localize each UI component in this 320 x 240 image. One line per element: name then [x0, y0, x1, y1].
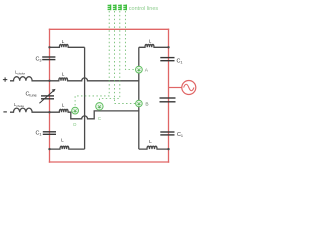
svg-text:Lchoke: Lchoke — [14, 102, 24, 108]
switch D — [72, 107, 79, 114]
svg-text:L: L — [61, 138, 64, 144]
wire top-right black row — [139, 44, 169, 47]
wire red tank loop rectangle — [49, 29, 169, 163]
control line to D — [75, 11, 109, 107]
junction dots on red bus — [48, 46, 169, 150]
svg-text:Lchoke: Lchoke — [15, 70, 25, 76]
svg-text:L: L — [149, 39, 152, 45]
capacitor C1 top-right — [160, 58, 174, 61]
connector glyph 1 — [108, 5, 111, 11]
wire right leg vertical — [138, 47, 140, 149]
switch A — [136, 66, 143, 73]
control line to A — [125, 11, 135, 70]
switch B — [136, 100, 143, 107]
svg-text:L: L — [62, 39, 65, 45]
wire top-left black row with corner — [50, 44, 85, 47]
capacitor C3 top-left — [42, 57, 55, 60]
svg-text:L: L — [62, 103, 65, 109]
AC source V1 — [182, 81, 196, 95]
wire row M (+ supply row) with choke, L, hop over left leg — [10, 77, 139, 81]
wire row 3 (- supply row) with choke, L, dip and hop — [10, 108, 139, 119]
control line to C — [100, 11, 120, 103]
wire bottom-right black row — [139, 146, 169, 149]
label + plus sign — [3, 77, 7, 81]
capacitor C1 bottom-left — [43, 132, 56, 135]
connector glyph 4 — [123, 5, 126, 11]
label - minus sign — [3, 111, 7, 113]
connector glyph 2 — [113, 5, 116, 11]
svg-text:control lines: control lines — [129, 6, 159, 12]
connector glyph 3 — [118, 5, 121, 11]
wire left leg vertical — [84, 47, 86, 149]
capacitor C1 bottom-right — [160, 132, 174, 135]
capacitor Ctune arrow — [39, 90, 54, 104]
svg-text:L: L — [62, 71, 65, 77]
control line to B — [115, 11, 136, 103]
wire red stub to source — [169, 87, 182, 89]
svg-text:L: L — [149, 139, 152, 145]
switch C — [96, 103, 103, 110]
svg-text:D: D — [73, 122, 76, 127]
svg-text:C: C — [98, 116, 101, 121]
svg-text:B: B — [145, 102, 148, 108]
wire bottom-left black row — [50, 146, 85, 149]
capacitor Ctune variable — [41, 96, 54, 99]
capacitor middle-right — [160, 98, 176, 102]
